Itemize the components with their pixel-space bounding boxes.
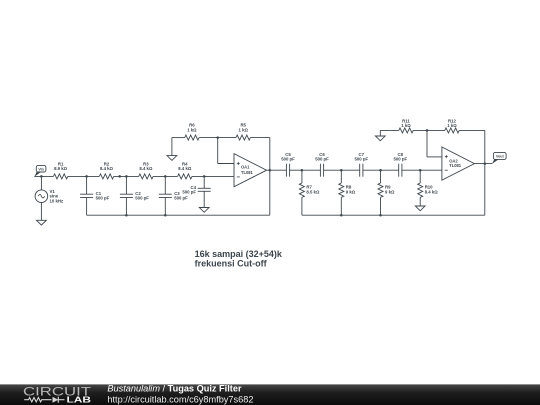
svg-text:Vout: Vout (496, 155, 505, 159)
ground below C4 (199, 208, 209, 213)
ground left of R6 (167, 156, 177, 161)
svg-text:TL081: TL081 (449, 163, 462, 168)
logo diode symbol (53, 397, 65, 403)
resistor R10 8.4 k (418, 170, 439, 206)
svg-text:8.9 kΩ: 8.9 kΩ (54, 166, 68, 171)
resistor R5 1 k (236, 123, 250, 140)
svg-text:9 kΩ: 9 kΩ (346, 190, 356, 195)
resistor R4 8.4 k (178, 161, 192, 179)
svg-text:8.4 kΩ: 8.4 kΩ (425, 190, 439, 195)
svg-text:Vin: Vin (38, 167, 44, 171)
svg-text:1 kΩ: 1 kΩ (401, 123, 411, 128)
svg-text:500 pF: 500 pF (135, 196, 149, 201)
svg-text:500 pF: 500 pF (174, 196, 188, 201)
resistor R1 8.9 k (53, 161, 67, 179)
resistor R11 1 k (399, 118, 413, 133)
wire: stage-2 main line segments (290, 169, 442, 171)
svg-text:8.4 kΩ: 8.4 kΩ (139, 166, 153, 171)
node: C2 bottom junction (125, 214, 128, 217)
node: R9 top junction (379, 169, 382, 172)
node: C4 top junction (203, 175, 206, 178)
wire: stage-2 top feedback wire (380, 130, 485, 136)
wire: OA2 output to Vout (474, 163, 492, 165)
node: extra junction dot before C2 (118, 175, 121, 178)
wire: stage-1 main line segments (34, 175, 234, 177)
ground left of R11 (375, 136, 385, 141)
capacitor C2 500 pF (120, 176, 149, 215)
node: R8 top junction (340, 169, 343, 172)
ground below R10 (415, 206, 425, 211)
svg-text:TL081: TL081 (241, 170, 254, 175)
wire: R6/R5 node down to OA1 + input (218, 138, 234, 164)
resistor R6 1 k (185, 123, 199, 140)
svg-text:8.4 kΩ: 8.4 kΩ (178, 166, 192, 171)
svg-text:9 kΩ: 9 kΩ (385, 190, 395, 195)
capacitor C7 500 pF (354, 152, 368, 177)
svg-text:500 pF: 500 pF (315, 157, 329, 162)
logo resistor symbol (24, 398, 51, 402)
node: OA2 output junction (484, 162, 487, 165)
svg-text:500 pF: 500 pF (182, 189, 196, 194)
resistor R7 8.5 (299, 170, 320, 215)
CircuitLab logo wordmark (23, 386, 91, 405)
node: OA1 output junction (269, 169, 272, 172)
resistor R3 8.4 k (139, 161, 153, 179)
capacitor C6 500 pF (315, 152, 329, 177)
capacitor C4 500 pF (182, 176, 210, 207)
svg-text:1 kΩ: 1 kΩ (187, 127, 197, 132)
node: R7 top junction (301, 169, 304, 172)
svg-text:http://circuitlab.com/c6y8mfby: http://circuitlab.com/c6y8mfby7s682 (107, 395, 253, 405)
wire: stage-1 feedback vertical at OA1 output (269, 138, 271, 216)
wire: OA1 output (267, 169, 287, 171)
capacitor C8 500 pF (393, 152, 407, 177)
node: R9 bottom junction (379, 214, 382, 217)
net flag Vout (492, 152, 506, 164)
node: C3 bottom junction (164, 214, 167, 217)
svg-text:10 kHz: 10 kHz (50, 198, 64, 203)
node: C2 top junction (125, 175, 128, 178)
resistor R8 9 (339, 170, 356, 215)
wire: stage-2 bottom rail (feedback to OA2 output) (302, 214, 485, 216)
node: R8 bottom junction (340, 214, 343, 217)
svg-text:Bustanulalim / Tugas Quiz Filt: Bustanulalim / Tugas Quiz Filter (107, 384, 242, 394)
resistor R2 8.4 k (99, 161, 113, 179)
node: V1 to main line junction (40, 175, 43, 178)
capacitor C5 500 pF (281, 152, 295, 177)
resistor R9 9 (378, 170, 395, 215)
annotation text (195, 249, 283, 269)
wire: stage-2 feedback vertical at OA2 output (484, 130, 486, 215)
resistor R12 1 k (445, 118, 459, 133)
net flag Vin (34, 165, 46, 176)
node: R11/R12 junction (426, 129, 429, 132)
svg-text:500 pF: 500 pF (393, 157, 407, 162)
capacitor C1 500 pF (80, 176, 109, 215)
op-amp OA2 TL081 (442, 147, 475, 180)
svg-text:frekuensi Cut-off: frekuensi Cut-off (195, 258, 268, 268)
capacitor C3 500 pF (159, 176, 188, 215)
svg-text:8.4 kΩ: 8.4 kΩ (100, 166, 114, 171)
wire: stage-1 bottom rail (feedback to OA1 output) (87, 214, 270, 216)
node: C3 top junction (164, 175, 167, 178)
wire: stage-1 top feedback wire (172, 138, 270, 156)
voltage source V1 (sine 10 kHz) (35, 176, 63, 220)
svg-text:500 pF: 500 pF (354, 157, 368, 162)
wire: R11/R12 node down to OA2 + input (427, 130, 442, 157)
node: R6/R5 junction (216, 136, 219, 139)
svg-text:8.5 kΩ: 8.5 kΩ (306, 190, 320, 195)
svg-text:16k sampai (32+54)k: 16k sampai (32+54)k (195, 249, 283, 259)
svg-text:500 pF: 500 pF (96, 196, 110, 201)
svg-text:1 kΩ: 1 kΩ (238, 127, 248, 132)
svg-text:LAB: LAB (67, 395, 92, 404)
footer credit text (107, 384, 253, 405)
svg-text:1 kΩ: 1 kΩ (447, 123, 457, 128)
node: R10 top junction (419, 169, 422, 172)
op-amp OA1 TL081 (234, 154, 267, 187)
ground below V1 (37, 220, 47, 225)
svg-text:500 pF: 500 pF (281, 157, 295, 162)
node: C1 top junction (85, 175, 88, 178)
